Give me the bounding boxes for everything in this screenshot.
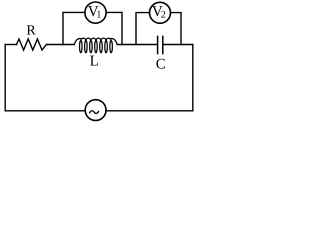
voltmeter V2 circle <box>150 2 171 23</box>
wire left vertical <box>4 45 6 111</box>
svg-text:C: C <box>156 56 166 72</box>
wire V2 left drop <box>136 13 149 45</box>
ac source tilde <box>90 111 99 114</box>
svg-text:2: 2 <box>161 10 166 21</box>
wire V1 left drop <box>63 12 85 44</box>
wire V1 right drop <box>106 12 122 44</box>
capacitor C plates <box>158 36 163 53</box>
wire resistor to inductor <box>46 44 74 46</box>
resistor R <box>17 39 47 50</box>
wire V2 right drop <box>171 13 181 45</box>
wire bottom left <box>5 110 85 112</box>
wire top: left corner to resistor <box>5 44 16 46</box>
wire inductor to capacitor <box>117 44 157 46</box>
svg-text:1: 1 <box>96 10 101 21</box>
svg-text:L: L <box>90 53 99 69</box>
wire capacitor to right corner <box>163 44 192 46</box>
ac source circle <box>85 100 106 121</box>
inductor L coil <box>74 38 117 53</box>
wire bottom right <box>106 110 193 112</box>
svg-text:R: R <box>26 24 36 39</box>
voltmeter V1 circle <box>85 2 106 23</box>
wire right vertical <box>192 45 194 111</box>
